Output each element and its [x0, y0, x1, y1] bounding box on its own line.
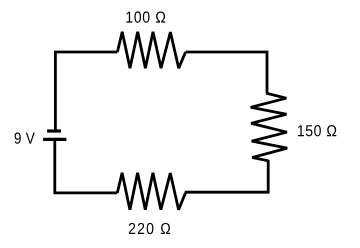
wire W4: bottom wire left segment + left wire lower segment	[55, 139, 118, 193]
battery V1 long plate (positive terminal)	[43, 138, 66, 141]
resistor R1 100Ω (top)	[117, 32, 185, 68]
wire W1: left wire upper segment + top wire left segment	[55, 52, 117, 131]
label 220 Ω	[129, 223, 170, 234]
resistor R3 220Ω (bottom)	[117, 173, 185, 210]
wire W2: top wire right segment + right wire upper segment	[186, 52, 267, 93]
battery V1 short plate (negative terminal)	[47, 129, 61, 132]
wire W3: right wire lower segment + bottom wire right segment	[185, 161, 269, 192]
label 100 Ω	[126, 11, 165, 22]
label 150 Ω	[298, 125, 336, 136]
label 9 V	[15, 132, 35, 143]
resistor R2 150Ω (right, vertical)	[251, 93, 288, 161]
